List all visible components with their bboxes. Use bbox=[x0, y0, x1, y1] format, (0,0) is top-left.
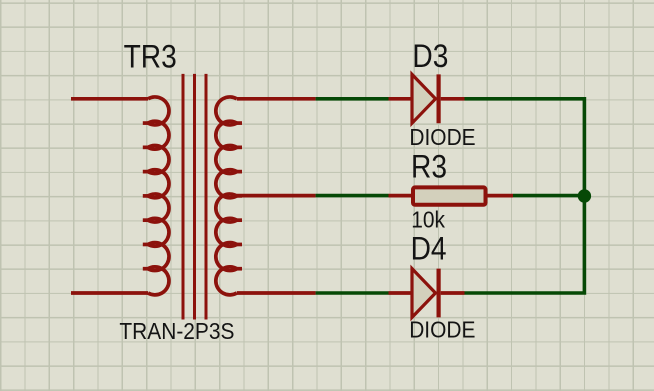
svg-text:R3: R3 bbox=[411, 150, 447, 185]
transformer TR3 primary winding bbox=[143, 97, 169, 295]
diode D4 anode pin bbox=[389, 291, 413, 295]
diode D3 cathode pin bbox=[441, 97, 465, 101]
diode D4 cathode pin bbox=[441, 291, 465, 295]
wire: R3 to right bus bbox=[513, 194, 584, 198]
wire: D3 cathode to right bus to D4 cathode bbox=[465, 99, 585, 293]
resistor R3 body bbox=[413, 187, 486, 204]
wire: primary bottom lead bbox=[71, 291, 148, 295]
wire: secondary top pin bbox=[237, 97, 316, 101]
diode D3 body bbox=[412, 74, 439, 123]
transformer TR3 secondary winding bbox=[216, 97, 242, 295]
wire: centre tap to R3 bbox=[316, 194, 389, 198]
junction node bbox=[578, 189, 591, 202]
svg-text:DIODE: DIODE bbox=[409, 124, 475, 150]
svg-text:D3: D3 bbox=[412, 39, 448, 74]
diode D3 anode pin bbox=[389, 97, 413, 101]
wire: secondary bottom pin bbox=[237, 291, 316, 295]
wire: transformer bottom to D4 bbox=[316, 291, 389, 295]
wire: transformer top to D3 bbox=[316, 97, 389, 101]
svg-text:D4: D4 bbox=[411, 232, 447, 267]
transformer TR3 core bbox=[183, 74, 206, 320]
resistor R3 left pin bbox=[389, 194, 412, 198]
wire: primary top lead bbox=[71, 97, 148, 101]
svg-text:TR3: TR3 bbox=[124, 40, 177, 75]
svg-text:TRAN-2P3S: TRAN-2P3S bbox=[119, 318, 234, 344]
svg-text:DIODE: DIODE bbox=[409, 317, 475, 343]
wire: secondary centre-tap pin bbox=[237, 194, 316, 198]
svg-text:10k: 10k bbox=[411, 207, 446, 233]
diode D4 body bbox=[412, 269, 439, 318]
resistor R3 right pin bbox=[488, 194, 514, 198]
